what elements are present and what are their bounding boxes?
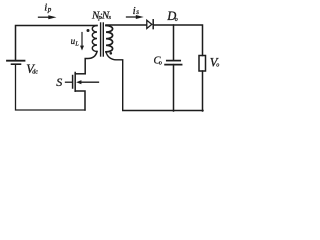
- svg-text:p: p: [47, 6, 52, 14]
- svg-text:o: o: [159, 61, 162, 67]
- svg-text:S: S: [56, 75, 62, 89]
- svg-text:L: L: [74, 42, 79, 48]
- svg-text:i: i: [44, 1, 47, 13]
- svg-text:o: o: [216, 63, 219, 69]
- svg-text:s: s: [136, 8, 139, 16]
- svg-text:o: o: [175, 17, 178, 23]
- svg-text:s: s: [109, 14, 112, 21]
- svg-text:dc: dc: [32, 70, 38, 76]
